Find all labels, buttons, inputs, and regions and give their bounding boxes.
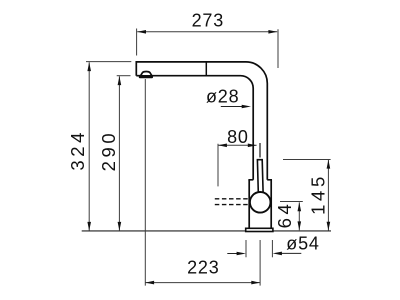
svg-text:145: 145 bbox=[308, 173, 329, 215]
aerator base plate bbox=[139, 76, 153, 78]
dim 223 arrow left bbox=[145, 281, 154, 285]
svg-text:80: 80 bbox=[227, 127, 249, 147]
dim phi54 extension line right bbox=[271, 240, 273, 257]
svg-text:ø54: ø54 bbox=[286, 233, 319, 253]
faucet spout bottom edge and riser inner edge bbox=[152, 76, 253, 180]
pull-out rod bbox=[257, 160, 263, 193]
dim 80 centerline tick bbox=[259, 143, 261, 158]
svg-text:ø28: ø28 bbox=[206, 87, 239, 107]
dim 145 extension line top bbox=[283, 159, 331, 161]
dim 223 extension line right bbox=[259, 240, 261, 286]
dim 273 extension line right bbox=[277, 29, 279, 68]
dim 273 arrow right bbox=[268, 30, 277, 34]
lever ball bbox=[250, 192, 271, 213]
dim 324 extension line top bbox=[86, 61, 131, 63]
svg-text:223: 223 bbox=[187, 258, 219, 278]
dim 80 line bbox=[218, 144, 257, 146]
dim 290 line bbox=[118, 76, 120, 230]
dim phi54 arrow right bbox=[280, 252, 301, 254]
dim 80 arrow left bbox=[218, 144, 227, 148]
dim 145 line bbox=[327, 160, 329, 231]
dim 290 arrow down bbox=[118, 222, 122, 231]
counter baseline bbox=[82, 230, 331, 232]
dim 290 extension line top bbox=[117, 75, 131, 77]
base plinth bbox=[246, 228, 273, 231]
lever dashed lines bbox=[215, 198, 249, 200]
svg-text:290: 290 bbox=[98, 130, 119, 172]
faucet spout bottom edge stub at tip bbox=[136, 75, 141, 77]
dim 64 extension line top bbox=[280, 201, 303, 203]
dim phi54 arrow left bbox=[227, 253, 238, 255]
dim 273 extension line left bbox=[136, 29, 138, 56]
dim 290 arrow up bbox=[118, 76, 122, 85]
dim 223 extension line left bbox=[144, 79, 146, 286]
dim 64 line bbox=[298, 202, 300, 230]
dim phi28 arrow bbox=[221, 106, 244, 108]
dim 80 extension line left bbox=[217, 144, 219, 187]
dim phi54 extension line left bbox=[245, 240, 247, 257]
dim 80 arrow right bbox=[248, 144, 257, 148]
dim 64 arrow down bbox=[298, 221, 302, 230]
svg-text:324: 324 bbox=[67, 129, 88, 171]
dim 64 arrow up bbox=[298, 202, 302, 211]
aerator dome bbox=[141, 72, 152, 76]
faucet spout and riser outline bbox=[136, 62, 267, 180]
spout joint line bbox=[205, 62, 207, 76]
dim 223 line bbox=[145, 282, 260, 284]
dim 145 arrow up bbox=[327, 160, 331, 169]
dim 145 arrow down bbox=[327, 222, 331, 231]
faucet body top shoulders bbox=[248, 179, 272, 181]
dim 273 arrow left bbox=[137, 30, 146, 34]
dim 273 line bbox=[137, 31, 277, 33]
dim 324 arrow up bbox=[87, 62, 91, 71]
dim 324 arrow down bbox=[87, 222, 91, 231]
svg-text:273: 273 bbox=[192, 10, 224, 30]
dim 324 line bbox=[88, 62, 90, 230]
faucet body bbox=[249, 180, 271, 229]
dim 223 arrow right bbox=[251, 281, 260, 285]
svg-text:64: 64 bbox=[274, 201, 295, 229]
